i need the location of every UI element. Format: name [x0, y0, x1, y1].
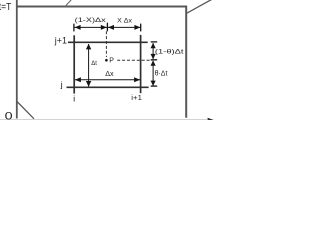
- svg-text:(1-θ)Δt: (1-θ)Δt: [155, 49, 184, 56]
- svg-text:i: i: [73, 94, 75, 103]
- wire: grid line j+1 (horizontal): [68, 41, 148, 43]
- wire: grid line i+1 (vertical): [140, 35, 142, 93]
- wire: break slash on top line: [65, 0, 72, 7]
- wire: right boundary line: [185, 6, 187, 118]
- node: dimension tick at i: [73, 24, 75, 32]
- svg-text:t=T: t=T: [0, 2, 11, 13]
- wire: bottom x-axis: [0, 119, 207, 121]
- node: arrowhead up theta-dt: [151, 60, 156, 65]
- wire: grid line j (horizontal): [67, 86, 149, 88]
- wire: delta-t dimension arrow (vertical, inside cell): [88, 44, 90, 86]
- wire: left boundary t-axis: [16, 0, 18, 119]
- svg-text:P: P: [109, 58, 114, 65]
- svg-text:X Δx: X Δx: [117, 18, 132, 25]
- node: delta-x arrow right head: [134, 77, 140, 82]
- wire: delta-x dimension arrow (horizontal, inside cell): [75, 79, 140, 81]
- node: dimension tick at P column: [106, 23, 108, 32]
- node: arrowhead right of (1-X)dx: [101, 25, 107, 30]
- wire: theta-dt dimension line: [152, 61, 154, 86]
- node: right dimension tick top: [151, 41, 158, 43]
- wire: top dimension line: [75, 26, 141, 28]
- wire: (1-theta)dt dimension line: [152, 43, 154, 59]
- node: point P dot: [105, 59, 108, 62]
- node: x-axis arrowhead: [208, 118, 214, 123]
- wire: break slash at bottom-left: [17, 102, 34, 119]
- svg-text:θ·Δt: θ·Δt: [155, 69, 168, 78]
- svg-text:j: j: [60, 80, 63, 90]
- svg-text:(1-X)Δx: (1-X)Δx: [75, 17, 107, 24]
- node: delta-t arrow bottom head: [86, 81, 91, 87]
- svg-text:Δt: Δt: [91, 60, 97, 67]
- node: arrowhead up (1-theta)dt: [151, 43, 156, 48]
- node: delta-t arrow top head: [86, 44, 91, 50]
- node: arrowhead left of (1-X)dx: [75, 25, 81, 30]
- node: arrowhead down (1-theta)dt: [151, 54, 156, 59]
- wire: grid line i (vertical): [73, 35, 75, 93]
- svg-text:i+1: i+1: [131, 93, 142, 102]
- wire: top boundary t=T line: [16, 6, 187, 8]
- node: delta-x arrow left head: [75, 77, 81, 82]
- node: dimension tick at i+1: [140, 24, 142, 32]
- node: arrowhead down theta-dt: [151, 81, 156, 86]
- svg-text:Δx: Δx: [105, 69, 114, 78]
- node: arrowhead left of Xdx: [108, 25, 114, 30]
- wire: dashed vertical line through P: [105, 31, 107, 57]
- node: right dimension tick bottom: [151, 85, 158, 87]
- node: arrowhead right of Xdx: [134, 25, 140, 30]
- svg-text:j+1: j+1: [54, 35, 67, 45]
- node: right dimension tick middle: [151, 59, 158, 61]
- svg-text:0: 0: [5, 110, 13, 120]
- wire: break slash at top-right corner: [187, 0, 212, 13]
- wire: dashed horizontal line from P: [117, 59, 152, 61]
